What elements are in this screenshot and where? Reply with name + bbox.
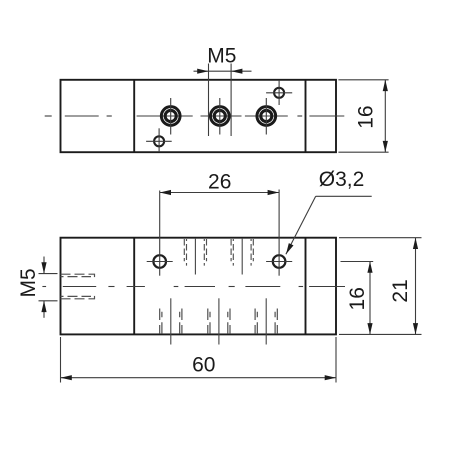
svg-text:Ø3,2: Ø3,2 — [319, 168, 365, 191]
svg-text:M5: M5 — [17, 268, 40, 297]
svg-text:16: 16 — [355, 105, 378, 128]
svg-text:26: 26 — [208, 170, 231, 193]
svg-text:M5: M5 — [207, 44, 236, 67]
svg-text:60: 60 — [192, 354, 215, 377]
svg-text:21: 21 — [389, 279, 412, 302]
svg-text:16: 16 — [346, 287, 369, 310]
